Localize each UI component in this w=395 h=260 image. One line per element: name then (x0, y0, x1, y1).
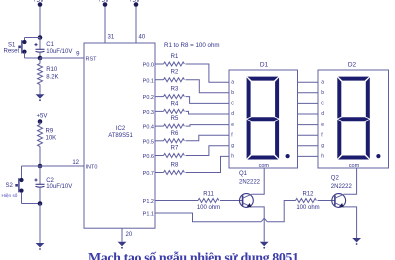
wire P0.5 pin lead (155, 140, 164, 142)
transistor Q2 2N2222 (332, 194, 346, 208)
segment c (275, 120, 279, 159)
display D1 body (229, 70, 298, 168)
wire segment e bus D1 to D2 (298, 124, 319, 126)
wire Q2 collector to D2 com (344, 168, 357, 194)
segment d (338, 156, 369, 160)
wire segment c bus D1 to D2 (298, 102, 319, 104)
resistor R5 (164, 124, 185, 128)
svg-text:g: g (231, 143, 234, 149)
ground (Q1) (260, 242, 269, 246)
power +5V rail (reset circuit) (39, 5, 41, 38)
svg-text:+5V: +5V (98, 0, 109, 4)
svg-text:Q1: Q1 (239, 171, 248, 177)
svg-text:h: h (231, 154, 234, 160)
svg-text:f: f (321, 132, 323, 138)
segment g (338, 117, 369, 121)
svg-text:P0.2: P0.2 (143, 95, 154, 101)
svg-text:9: 9 (76, 52, 80, 58)
pin 20 lead (121, 228, 123, 242)
svg-text:R1 to R8 = 100 ohm: R1 to R8 = 100 ohm (164, 42, 220, 49)
capacitor C1 top lead (39, 38, 41, 50)
segment f (337, 77, 341, 118)
wire R1 to display segment (186, 64, 230, 82)
ground (S2/C2) (36, 243, 45, 247)
wire R12 to Q2 base (318, 200, 335, 202)
op-amp U1 IC2 AT89S51 body (84, 43, 155, 228)
resistor R10 bottom lead (39, 85, 41, 95)
wire R7 to display segment (186, 146, 230, 156)
svg-text:R9: R9 (46, 129, 54, 135)
wire P1.1 net (155, 213, 261, 222)
power +5V symbol 1 (38, 2, 43, 7)
wire P1.2 to R11 (155, 200, 198, 202)
node C junction (38, 164, 43, 169)
wire to switch S2 top (22, 165, 41, 167)
svg-text:+5V: +5V (37, 114, 48, 120)
svg-text:IC2: IC2 (116, 126, 126, 132)
svg-text:INT0: INT0 (86, 164, 98, 170)
resistor R6 (164, 139, 185, 143)
svg-text:10uF/10V: 10uF/10V (46, 49, 72, 55)
ground (Q2) (352, 238, 361, 242)
wire R6 to display segment (186, 135, 230, 141)
segment e (247, 120, 251, 159)
svg-text:Hiện số: Hiện số (2, 193, 18, 198)
segment g (247, 117, 278, 121)
wire S2 bottom to node D (22, 203, 41, 205)
svg-text:2N2222: 2N2222 (331, 184, 353, 190)
svg-text:d: d (321, 111, 324, 117)
svg-text:d: d (231, 111, 234, 117)
display D2 decimal point (376, 154, 380, 158)
segment b (366, 77, 370, 118)
svg-text:P0.6: P0.6 (143, 154, 154, 160)
wire S2 top lead (21, 166, 23, 179)
svg-text:P0.4: P0.4 (143, 125, 154, 131)
segment e (337, 120, 341, 159)
svg-text:g: g (321, 143, 324, 149)
svg-text:R1: R1 (171, 54, 179, 60)
wire P0.6 pin lead (155, 155, 164, 157)
wire R8 to display segment (186, 156, 230, 172)
transistor Q1 2N2222 (240, 194, 254, 208)
wire R11 to Q1 base (220, 200, 243, 202)
wire R2 to display segment (186, 80, 230, 93)
wire INT0 net (40, 165, 84, 167)
resistor R11 (198, 199, 219, 203)
wire R4 to display segment (186, 111, 230, 114)
wire P0.2 pin lead (155, 96, 164, 98)
svg-text:f: f (231, 132, 233, 138)
svg-text:P0.3: P0.3 (143, 110, 154, 116)
resistor R8 (164, 171, 185, 175)
svg-text:R2: R2 (171, 70, 179, 76)
resistor R10 (38, 64, 43, 85)
wire to switch S1 top (25, 37, 41, 39)
display D2 body (318, 70, 389, 168)
wire Q2 emitter to ground (344, 207, 357, 238)
wire segment g bus D1 to D2 (298, 145, 319, 147)
svg-text:+5V: +5V (33, 0, 44, 4)
power +5V symbol 3 (134, 2, 139, 7)
svg-text:b: b (231, 90, 234, 96)
wire segment d bus D1 to D2 (298, 113, 319, 115)
resistor R2 (164, 78, 185, 82)
wire hop over Q1 emitter (261, 218, 267, 221)
wire segment h bus D1 to D2 (298, 155, 319, 157)
svg-text:R11: R11 (203, 191, 214, 197)
svg-text:P1.2: P1.2 (143, 199, 154, 205)
resistor R9 (38, 125, 43, 147)
wire S1 top lead (24, 38, 26, 42)
svg-text:2N2222: 2N2222 (239, 180, 261, 186)
svg-text:e: e (231, 122, 234, 128)
svg-text:D2: D2 (348, 62, 357, 69)
power +5V rail to pin 40 (135, 5, 137, 44)
resistor R3 (164, 95, 185, 99)
wire P0.1 pin lead (155, 79, 164, 81)
capacitor C2 top lead (39, 166, 41, 184)
svg-text:R8: R8 (171, 163, 179, 169)
svg-text:+5V: +5V (129, 0, 140, 4)
segment f (247, 77, 251, 118)
svg-text:R10: R10 (46, 67, 58, 73)
svg-text:20: 20 (126, 232, 133, 238)
wire R3 to display segment (186, 97, 230, 104)
svg-text:R4: R4 (171, 101, 179, 107)
svg-text:R7: R7 (171, 146, 179, 152)
svg-text:P0.1: P0.1 (143, 78, 154, 84)
display D1 decimal point (286, 154, 290, 158)
power +5V rail to pin 31 (104, 5, 106, 44)
svg-text:Mạch tạo số ngẫu nhiên sử dụng: Mạch tạo số ngẫu nhiên sử dụng 8051 (88, 250, 299, 260)
wire R5 to display segment (186, 125, 230, 127)
svg-text:c: c (321, 101, 324, 107)
ground (pin 20) (118, 242, 127, 246)
svg-text:R12: R12 (302, 191, 314, 197)
resistor R9 bottom lead (39, 147, 41, 167)
wire segment f bus D1 to D2 (298, 134, 319, 136)
svg-text:e: e (321, 122, 324, 128)
svg-text:Q2: Q2 (331, 175, 340, 181)
capacitor C1 (36, 48, 45, 50)
svg-text:R6: R6 (171, 131, 179, 137)
resistor R12 (296, 199, 317, 203)
wire Q1 collector to D1 com (252, 168, 265, 194)
switch S2 (19, 178, 23, 182)
wire P1.1 to R12 (267, 201, 295, 222)
resistor R4 (164, 109, 185, 113)
ground (R10) (36, 94, 45, 98)
svg-text:a: a (321, 79, 324, 85)
wire P0.7 pin lead (155, 172, 164, 174)
svg-text:S1: S1 (8, 42, 16, 48)
segment a (247, 77, 278, 81)
segment b (275, 77, 279, 118)
svg-text:40: 40 (139, 35, 146, 41)
wire segment b bus D1 to D2 (298, 92, 319, 94)
svg-text:100 ohm: 100 ohm (296, 205, 319, 211)
resistor R7 (164, 154, 185, 158)
wire node D to ground (39, 204, 41, 244)
segment c (366, 120, 370, 159)
svg-text:12: 12 (72, 160, 79, 166)
svg-text:com: com (349, 163, 360, 169)
capacitor C2 (36, 183, 45, 185)
node A junction (38, 35, 43, 40)
switch S1 (22, 40, 26, 44)
svg-text:a: a (231, 79, 234, 85)
wire S1 bottom to node B (25, 57, 41, 59)
segment d (247, 156, 278, 160)
svg-text:AT89S51: AT89S51 (108, 133, 133, 139)
svg-text:RST: RST (86, 56, 98, 62)
svg-text:8.2K: 8.2K (46, 75, 58, 81)
svg-text:Reset: Reset (4, 49, 20, 55)
svg-text:h: h (321, 154, 324, 160)
node B junction (38, 56, 43, 61)
wire segment a bus D1 to D2 (298, 81, 319, 83)
resistor R10 top lead (39, 58, 41, 64)
svg-text:P0.5: P0.5 (143, 139, 154, 145)
wire +5V to R9 (39, 122, 41, 125)
svg-text:P0.0: P0.0 (143, 63, 154, 69)
node D junction (38, 201, 43, 206)
wire S2 bottom lead (21, 192, 23, 203)
svg-text:S2: S2 (6, 183, 14, 189)
wire RST net (40, 57, 84, 59)
svg-text:D1: D1 (260, 62, 269, 69)
power +5V symbol 2 (103, 2, 108, 7)
capacitor C1 bottom lead (39, 53, 41, 58)
wire P0.4 pin lead (155, 125, 164, 127)
wire S1 bottom lead (24, 53, 26, 59)
svg-text:C1: C1 (46, 42, 54, 48)
svg-text:P1.1: P1.1 (143, 212, 154, 218)
svg-text:c: c (231, 101, 234, 107)
resistor R1 (164, 62, 185, 66)
svg-text:100 ohm: 100 ohm (197, 205, 220, 211)
wire P0.3 pin lead (155, 110, 164, 112)
svg-text:10K: 10K (46, 136, 57, 142)
wire P0.0 pin lead (155, 63, 164, 65)
svg-text:P0.7: P0.7 (143, 171, 154, 177)
svg-text:10uF/10V: 10uF/10V (46, 184, 72, 190)
segment a (338, 77, 369, 81)
wire Q1 emitter to ground (251, 207, 264, 242)
capacitor C2 bottom lead (39, 188, 41, 204)
svg-text:R3: R3 (171, 87, 179, 93)
svg-text:b: b (321, 90, 324, 96)
svg-text:31: 31 (108, 35, 115, 41)
svg-text:R5: R5 (171, 116, 179, 122)
